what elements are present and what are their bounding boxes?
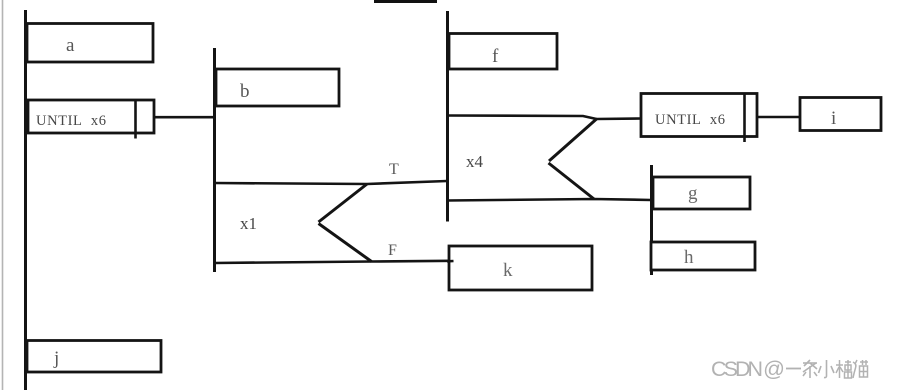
wire: F-branch tick inside box k (447, 260, 454, 263)
box a (27, 24, 153, 63)
box k (449, 246, 592, 290)
watermark char yi (786, 368, 801, 370)
wire: until1 to line2 (154, 116, 215, 119)
until divider (left) (134, 100, 137, 139)
svg-text:f: f (492, 46, 499, 67)
svg-text:i: i (831, 108, 836, 129)
repeat box UNTIL x6 (right) (641, 94, 757, 137)
svg-text:a: a (66, 35, 75, 56)
wire: until2 to box i (758, 116, 800, 119)
condition x4 notch upper diagonal (549, 119, 597, 161)
condition x4 top line (T branch) (447, 116, 597, 120)
svg-text:UNTIL x6: UNTIL x6 (655, 112, 726, 128)
repeat box UNTIL x6 (left) (28, 100, 154, 133)
condition x1 notch upper diagonal (319, 184, 368, 222)
wire: vertical line 2 (213, 48, 216, 272)
condition x4 bottom line (F branch) (447, 199, 651, 201)
wire: vertical line 4 (650, 165, 653, 275)
wire: main trunk vertical line 1 (24, 10, 27, 390)
box b (216, 69, 339, 106)
box i (800, 98, 881, 131)
svg-text:h: h (684, 247, 694, 268)
page left faint border (2, 0, 4, 390)
svg-text:k: k (503, 260, 513, 281)
box j (27, 341, 161, 373)
until divider (right) (743, 94, 746, 143)
watermark char ju (836, 360, 852, 378)
svg-text:CSDN @: CSDN @ (711, 357, 785, 381)
svg-text:F: F (388, 242, 397, 259)
watermark char xiao (819, 360, 835, 378)
top cropped box bottom edge (374, 0, 437, 3)
condition x4 notch lower diagonal (549, 163, 595, 199)
condition x1 top line (T branch) (214, 181, 447, 184)
svg-text:j: j (53, 348, 59, 369)
wire: vertical line 3 (446, 11, 449, 222)
svg-text:b: b (240, 81, 250, 102)
watermark char tiao (803, 360, 817, 378)
box h (651, 242, 755, 270)
svg-text:T: T (389, 161, 399, 178)
condition x1 bottom line (F branch) (214, 261, 452, 263)
svg-text:x4: x4 (466, 152, 484, 171)
wire: x4 T to until2 (596, 117, 642, 120)
svg-text:x1: x1 (240, 214, 257, 233)
condition x1 notch lower diagonal (319, 224, 372, 262)
svg-text:UNTIL x6: UNTIL x6 (36, 113, 107, 129)
box f (449, 34, 557, 70)
box g (653, 177, 750, 209)
watermark char mao (853, 360, 868, 378)
svg-text:g: g (688, 183, 698, 204)
